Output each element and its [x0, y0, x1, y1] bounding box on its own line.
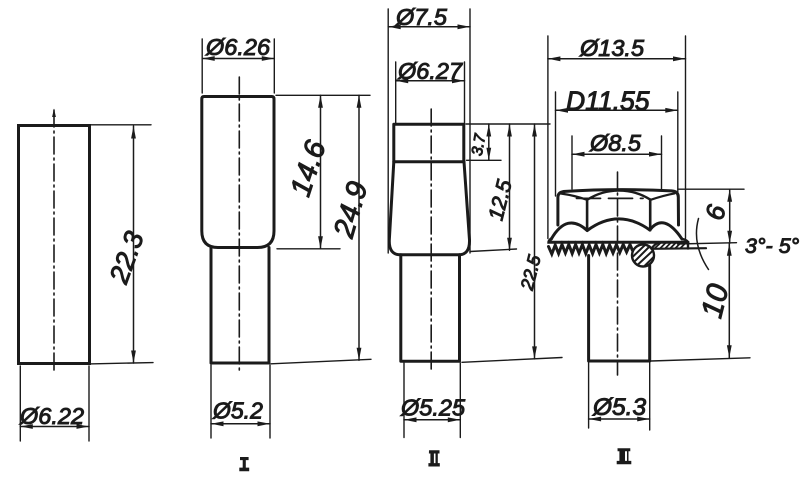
dimension 24.9: [357, 95, 362, 360]
dimension dia 6.26: [202, 56, 274, 61]
svg-text:14.6: 14.6: [285, 136, 333, 200]
hex chamfer line right: [651, 193, 675, 199]
flange scallop left: [551, 223, 587, 239]
serration roll circle: [632, 245, 654, 267]
stage I stem: [211, 248, 269, 364]
extension line stage I top right: [276, 94, 370, 96]
dimension D11.55: [556, 108, 678, 113]
extension line top view 0: [89, 124, 151, 126]
roman numeral III: [617, 448, 632, 464]
extension line stage I stem bottom: [271, 359, 371, 364]
hex chamfer dashed line: [577, 197, 644, 199]
stage I head outline: [202, 97, 274, 248]
extension lines D11.55: [556, 92, 678, 196]
dimension 12.5: [507, 124, 512, 250]
flange scallop right: [650, 223, 682, 239]
svg-text:D11.55: D11.55: [566, 86, 650, 116]
svg-text:6: 6: [699, 201, 732, 223]
extension line stage III stem bottom: [651, 358, 750, 361]
dimension 22.5: [532, 124, 537, 359]
dimension 3.7: [486, 124, 491, 160]
svg-text:Ø5.25: Ø5.25: [400, 395, 466, 421]
stage III hex head outline: [558, 190, 679, 225]
extension line head top right: [678, 188, 744, 190]
hex corner line left: [586, 200, 589, 231]
svg-text:3°- 5°: 3°- 5°: [745, 234, 800, 258]
extension line stage II cone bottom: [470, 249, 517, 252]
extension lines dia 8.5: [572, 136, 662, 189]
flange scallop middle: [587, 219, 650, 231]
extension lines dia 7.5: [388, 9, 470, 253]
dimension dia 5.25: [404, 417, 460, 422]
extension line stage II step: [467, 159, 502, 161]
extension lines dia 6.26: [202, 39, 274, 93]
angle arc 3-5 deg: [696, 219, 708, 270]
extension lines dia 5.2: [211, 365, 270, 438]
dimension dia 8.5: [572, 152, 662, 157]
dimension 14.6: [318, 95, 323, 249]
extension lines dia 6.22: [20, 366, 89, 441]
extension lines dia 13.5: [548, 36, 686, 239]
hex chamfer line left: [562, 194, 588, 200]
svg-text:22.3: 22.3: [103, 228, 150, 289]
centerline stage III: [617, 172, 619, 375]
svg-text:Ø5.3: Ø5.3: [592, 394, 646, 421]
roman numeral I: [239, 457, 249, 471]
dimension dia 5.2: [211, 421, 270, 426]
extension line stage I head bottom: [277, 248, 340, 250]
extension lines dia 6.27: [396, 62, 465, 124]
dimension dia 6.27: [396, 78, 465, 83]
centerline stage I: [238, 77, 240, 374]
svg-text:22.5: 22.5: [517, 252, 545, 293]
svg-text:Ø13.5: Ø13.5: [579, 35, 645, 61]
blank slug outline (view 0): [19, 126, 90, 364]
svg-text:3.7: 3.7: [469, 131, 490, 157]
hex corner line right: [649, 200, 652, 231]
extension lines dia 5.25: [404, 363, 460, 438]
svg-text:Ø6.27: Ø6.27: [397, 58, 463, 84]
dimension dia 7.5: [388, 24, 470, 29]
extension line bottom view 0: [89, 363, 153, 364]
roman numeral II: [428, 450, 439, 466]
dimension 6: [727, 189, 732, 243]
svg-text:24.9: 24.9: [328, 178, 375, 242]
svg-text:Ø7.5: Ø7.5: [395, 4, 448, 30]
dimension 22.3: [131, 126, 136, 363]
extension line stage II stem bottom: [462, 358, 562, 363]
stage II upper cylinder: [394, 124, 464, 162]
centerline view 0: [53, 110, 55, 374]
extension lines dia 5.3: [589, 362, 650, 430]
dimension dia 13.5: [548, 56, 686, 61]
svg-text:12.5: 12.5: [484, 177, 516, 223]
svg-text:Ø8.5: Ø8.5: [589, 130, 642, 156]
svg-text:Ø6.22: Ø6.22: [19, 403, 84, 429]
stage II cone: [389, 162, 469, 255]
serration zigzag: [549, 245, 633, 255]
stage III stem: [589, 256, 650, 362]
stage II stem: [401, 255, 460, 361]
extension line flange bottom right: [678, 243, 737, 244]
flange lower cone line: [652, 242, 707, 249]
flange right edge: [682, 239, 688, 249]
svg-text:Ø5.2: Ø5.2: [212, 398, 263, 424]
serration band hatching: [655, 243, 686, 249]
dimension dia 5.3: [589, 417, 650, 422]
flange bottom line: [549, 239, 688, 243]
hex face arc middle: [587, 191, 651, 200]
dimension 10: [727, 243, 732, 357]
extension line stage II top right: [466, 123, 550, 125]
svg-text:Ø6.26: Ø6.26: [205, 34, 271, 60]
centerline stage II: [430, 109, 432, 372]
dimension dia 6.22: [20, 424, 89, 429]
